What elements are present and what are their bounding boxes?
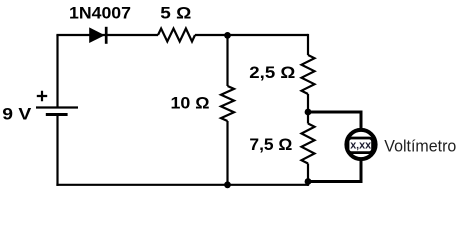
svg-text:7,5 Ω: 7,5 Ω — [249, 135, 292, 154]
svg-text:2,5 Ω: 2,5 Ω — [249, 63, 295, 82]
svg-text:x,xx: x,xx — [350, 140, 372, 152]
svg-text:10 Ω: 10 Ω — [171, 94, 210, 113]
svg-text:9 V: 9 V — [2, 105, 32, 124]
svg-text:5 Ω: 5 Ω — [160, 3, 191, 22]
svg-text:Voltímetro: Voltímetro — [384, 137, 456, 155]
svg-text:1N4007: 1N4007 — [69, 3, 131, 22]
